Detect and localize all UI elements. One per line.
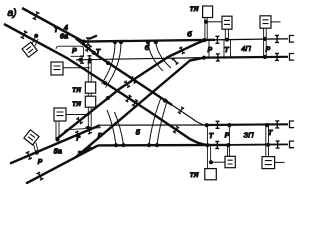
crossover rail P1a (descending, thick part)	[76, 39, 172, 106]
junction dots on R3	[205, 124, 208, 127]
junction dots on R2	[79, 58, 82, 61]
junction dot bus/P2a	[88, 127, 91, 130]
svg-text:Т: Т	[96, 49, 101, 56]
rail end brackets, right edge	[290, 36, 295, 43]
junction dots on crossover rails	[163, 99, 166, 102]
junction dot and wire to B5	[204, 20, 207, 23]
svg-text:ЗП: ЗП	[243, 131, 254, 140]
B2 connecting stub	[33, 143, 38, 152]
joints on R3	[216, 121, 220, 128]
junction dots on R4	[114, 144, 117, 147]
insulated joint on A3	[26, 152, 32, 160]
B1 connecting stub	[32, 38, 38, 47]
svg-text:Т: Т	[209, 133, 214, 140]
traction bus vertical pair with TYa boxes	[88, 60, 91, 129]
TYa box 3 (top right)	[203, 6, 213, 18]
rail R4 lower rail of lower track	[98, 144, 230, 147]
joints on R4	[215, 142, 219, 149]
insulated joint on A1	[33, 12, 40, 20]
svg-text:ТЯ: ТЯ	[72, 101, 81, 108]
svg-text:Т: Т	[224, 47, 229, 54]
approach rail A1 (upper rail, top-left track 6a)	[22, 8, 83, 42]
junction dot B1/A2	[35, 34, 38, 37]
junction dot B4/A3	[56, 138, 59, 141]
jumper loop around switch 4	[56, 46, 84, 56]
impedance box B6 (top far right)	[260, 16, 271, 28]
junction dots on R1	[82, 40, 85, 43]
svg-text:б: б	[145, 43, 150, 52]
svg-text:Р: Р	[98, 133, 103, 140]
svg-text:Р: Р	[72, 48, 77, 55]
svg-text:ТЯ: ТЯ	[72, 87, 81, 94]
svg-text:б: б	[187, 29, 192, 38]
crossover rail P2a (ascending) with merge tail into R1	[56, 40, 205, 139]
rail R3 upper rail of lower track	[100, 124, 205, 126]
B8 stub wire right	[275, 161, 285, 163]
jumper loop around switch 3	[65, 128, 101, 133]
section divider lines, bottom track	[207, 125, 210, 168]
switch 3 tongue mark	[84, 147, 92, 150]
impedance box B2 (tilted) at track 5a	[24, 130, 39, 145]
TYa box 2	[85, 96, 95, 107]
B6 stub wire right	[271, 21, 281, 23]
crossover rail P2b (ascending lower)	[76, 58, 204, 157]
svg-text:ТЯ: ТЯ	[190, 6, 199, 13]
turnout curve pair 1 (R1 down to P1b)	[102, 42, 122, 87]
joints on R2	[80, 56, 84, 63]
B4 drop wires to A3	[56, 121, 59, 139]
svg-text:Т: Т	[268, 130, 273, 137]
svg-text:а): а)	[7, 7, 16, 19]
approach rail A4 (lower rail bottom-left)	[26, 145, 98, 183]
svg-text:Р: Р	[38, 159, 43, 166]
impedance box B8 (bottom right)	[262, 157, 275, 169]
impedance box B7 (bottom middle)	[225, 156, 235, 167]
TYa box 4 (bottom)	[205, 169, 217, 180]
joint on A3 merge zone	[85, 126, 91, 134]
turnout curve pair 4 (R4 up across R3 to P1a)	[149, 98, 168, 146]
svg-text:Т: Т	[75, 136, 80, 143]
svg-text:Р: Р	[225, 133, 230, 140]
TYa box 1	[85, 82, 95, 93]
B7 wire left with dot	[210, 161, 213, 164]
impedance box B3 (left, upper)	[51, 62, 63, 75]
svg-text:4П: 4П	[241, 44, 251, 53]
turnout curve pair 2 (R1 down to ascending rail)	[148, 42, 171, 71]
rail R1 top rail of upper track	[83, 40, 215, 42]
impedance box B1 (tilted, with bars) at track 6a	[22, 42, 37, 57]
B3 wire to traction bus	[63, 67, 90, 69]
insulated joint on A4	[37, 172, 44, 180]
svg-text:Р: Р	[265, 46, 270, 53]
svg-text:ТЯ: ТЯ	[190, 172, 199, 179]
impedance box B4 (left, lower)	[54, 108, 66, 121]
impedance box B5	[222, 16, 232, 29]
turnout curve pair 3 (R4 up to P2b)	[107, 110, 124, 145]
center joints on crossover rails	[124, 81, 130, 88]
section divider lines between rails, top track	[209, 40, 231, 58]
junction dot B2/A3	[35, 151, 38, 154]
svg-text:6а: 6а	[60, 32, 68, 41]
rail R2 second rail of upper track	[76, 58, 205, 60]
joints on R1	[86, 38, 90, 45]
junction dot bus/R2	[88, 58, 91, 61]
svg-text:4: 4	[63, 25, 68, 32]
B4 wire	[66, 114, 90, 116]
svg-text:5а: 5а	[54, 147, 62, 156]
crossover rail P1a merge tail into R3	[172, 105, 205, 125]
svg-text:Р: Р	[207, 47, 212, 54]
approach rail A2 + crossover rail P1b (descends to bottom track)	[4, 24, 206, 145]
insulated joint on A2	[21, 31, 28, 39]
svg-text:3: 3	[77, 150, 81, 157]
switch 4 tongue mark	[89, 36, 97, 40]
approach rail A3 (upper rail, bottom-left track 5a)	[10, 125, 100, 163]
